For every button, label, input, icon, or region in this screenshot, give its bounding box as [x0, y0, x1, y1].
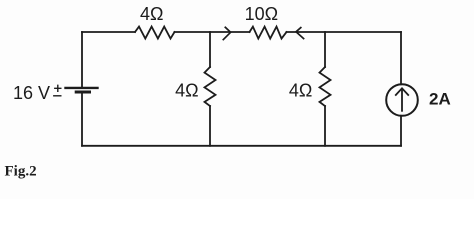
plus sign of battery [55, 85, 61, 91]
wire top-middle segment [175, 31, 250, 33]
wire top-right segment [287, 31, 402, 33]
wire right edge upper (top-right corner down to current source) [400, 32, 402, 84]
wire top-left segment [82, 31, 135, 33]
wire left edge upper (battery to top-left corner) [81, 32, 83, 87]
svg-text:10Ω: 10Ω [245, 4, 278, 24]
wire middle branch upper [209, 32, 211, 67]
svg-text:4Ω: 4Ω [140, 4, 163, 24]
svg-text:Fig.2: Fig.2 [5, 163, 37, 179]
resistor 4ohm top-left zigzag [135, 27, 175, 39]
current source arrow head [396, 88, 408, 95]
resistor 4ohm middle vertical zigzag [205, 67, 216, 106]
wire bottom rail [82, 145, 401, 147]
minus sign of battery [54, 95, 61, 97]
svg-text:16 V: 16 V [13, 83, 50, 103]
svg-text:4Ω: 4Ω [289, 81, 312, 101]
current arrow right-pointing on top wire [223, 27, 230, 39]
current arrow left-pointing on top wire [296, 28, 304, 39]
voltage source 16V battery short plate [76, 91, 89, 94]
svg-text:2A: 2A [429, 90, 451, 109]
resistor 4ohm right vertical zigzag [320, 67, 331, 106]
wire right branch upper [324, 32, 326, 67]
wire right edge lower (current source to bottom-right corner) [400, 116, 402, 146]
wire middle branch lower [209, 106, 211, 146]
wire left edge lower (battery to bottom-left corner) [81, 94, 83, 146]
current source arrow shaft [401, 89, 403, 111]
voltage source 16V battery long plate [66, 87, 98, 89]
current source 2A circle [386, 84, 418, 116]
svg-text:4Ω: 4Ω [175, 81, 198, 101]
wire right branch lower [324, 106, 326, 146]
resistor 10ohm top zigzag [250, 27, 287, 39]
